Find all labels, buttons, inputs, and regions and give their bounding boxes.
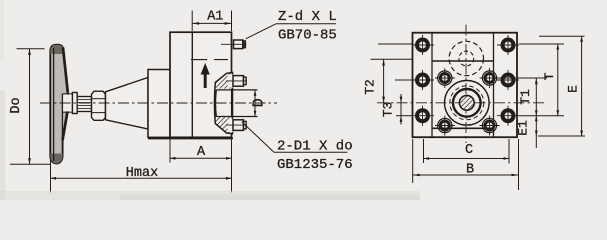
boss (hatched) [214, 73, 232, 134]
inner face bottom edge [432, 127, 494, 129]
hex nut [92, 91, 106, 120]
svg-text:Hmax: Hmax [126, 166, 158, 181]
svg-text:GB70-85: GB70-85 [278, 28, 337, 44]
flange plate outline [413, 33, 518, 138]
dimension T1 / E1 [516, 78, 538, 148]
boss stud lower 2-D1 [226, 119, 247, 132]
label 2-D1 X do / GB1235-76 [242, 122, 353, 173]
svg-text:T1: T1 [518, 89, 533, 105]
svg-text:T: T [542, 72, 557, 80]
hidden boss circles (dashed, top) [449, 41, 483, 75]
inner face top edge [432, 60, 494, 62]
scan smudge bottom [0, 191, 420, 200]
body base thick edge [148, 137, 233, 139]
dimension E [566, 36, 584, 136]
face bolt TL [435, 68, 455, 88]
threaded shaft [77, 97, 91, 112]
dimension T3 [381, 80, 413, 125]
label Z-d X L / GB70-85 [246, 9, 337, 44]
face bolt TR [480, 68, 500, 88]
corner hole BR [497, 106, 519, 126]
corner hole BL [412, 106, 434, 126]
dimension T2 [363, 44, 413, 103]
vertical centerline [465, 25, 467, 144]
right strip divider [493, 33, 495, 137]
svg-text:2-D1 X do: 2-D1 X do [277, 139, 353, 155]
svg-text:GB1235-76: GB1235-76 [277, 157, 353, 173]
svg-text:Do: Do [9, 97, 24, 113]
svg-text:T2: T2 [363, 79, 378, 95]
svg-text:Z-d X L: Z-d X L [278, 9, 337, 25]
dimension A [170, 138, 232, 163]
scan smudge left [0, 90, 5, 200]
svg-text:C: C [465, 143, 473, 158]
dimension B [413, 139, 519, 190]
dimension T [542, 44, 559, 116]
body divider line [191, 32, 193, 137]
svg-text:E1: E1 [516, 120, 531, 136]
port opening lines [216, 89, 257, 91]
svg-text:A: A [197, 145, 206, 160]
dimension C [424, 139, 510, 164]
boss stud upper 2-D1 [226, 75, 247, 88]
hub cap [72, 93, 77, 114]
main axis centerline [40, 102, 277, 104]
dimension D [251, 90, 268, 117]
flow arrow [201, 63, 210, 88]
face bolt BR [480, 116, 500, 136]
corner hole TL [412, 35, 434, 55]
hidden bore line [191, 59, 228, 61]
svg-text:B: B [466, 163, 474, 178]
handwheel [50, 45, 72, 164]
horizontal centerline [377, 102, 545, 104]
cone [106, 78, 149, 130]
side hole ML [412, 70, 434, 90]
corner hole TR [497, 35, 519, 55]
svg-text:T3: T3 [381, 102, 396, 118]
mounting block [148, 70, 170, 138]
dimension Hmax [51, 160, 232, 193]
center port circles [445, 81, 490, 126]
dimension A1 [192, 9, 231, 31]
svg-text:A1: A1 [207, 9, 223, 24]
dimension Do [9, 49, 51, 165]
face bolt BL [435, 116, 455, 136]
top stud Z-d [221, 40, 247, 49]
valve body [170, 32, 232, 137]
side hole MR [497, 70, 519, 90]
svg-text:E: E [566, 85, 581, 93]
row extension lines right [497, 36, 585, 136]
svg-text:D: D [251, 98, 268, 107]
left strip divider [431, 33, 433, 137]
